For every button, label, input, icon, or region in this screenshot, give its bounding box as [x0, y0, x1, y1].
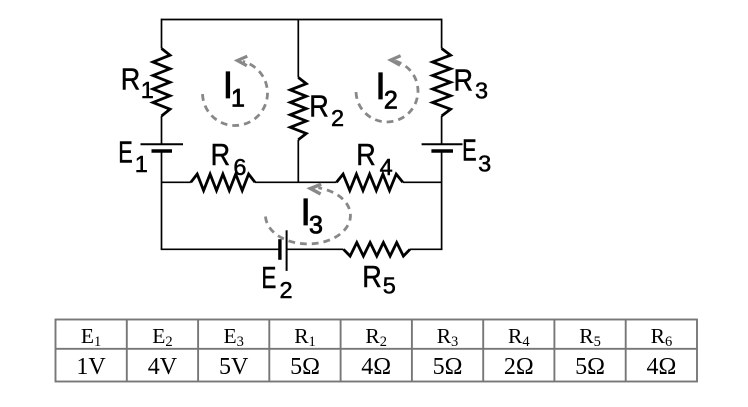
label E2 [261, 260, 292, 303]
svg-text:R: R [309, 89, 329, 124]
mesh current loop I2 dashed arc [356, 61, 418, 122]
table header row [81, 324, 672, 350]
svg-text:R2: R2 [365, 324, 387, 350]
wire right upper (top corner to R3) [441, 19, 443, 49]
svg-text:6: 6 [233, 154, 246, 180]
svg-text:4Ω: 4Ω [361, 354, 391, 380]
svg-text:E2: E2 [152, 324, 172, 350]
svg-text:4Ω: 4Ω [646, 354, 676, 380]
label I1 [223, 65, 245, 113]
label E1 [118, 134, 148, 177]
svg-text:E: E [118, 134, 133, 169]
mesh current loop I1 arrowhead [237, 56, 247, 65]
battery E3 (short thick plate) [431, 149, 453, 152]
wire left lower (E1 to bottom corner) [161, 151, 163, 249]
svg-text:E3: E3 [224, 324, 244, 350]
label R4 [356, 137, 392, 180]
table value row [76, 354, 676, 380]
svg-text:3: 3 [309, 212, 323, 240]
resistor R5 [344, 243, 411, 257]
svg-text:R6: R6 [651, 324, 673, 350]
label I2 [375, 66, 398, 114]
svg-text:R4: R4 [508, 324, 530, 350]
wire bottom left (corner to E2) [161, 248, 280, 250]
label R1 [121, 62, 154, 104]
wire bottom right (R5 to corner) [410, 248, 443, 250]
mesh current loop I3 arrowhead [311, 184, 322, 194]
wire middle branch upper (top to R2) [297, 20, 299, 78]
mesh current loop I3 dashed arc [266, 188, 351, 244]
battery E1 (short thick plate) [152, 149, 173, 152]
wire top [162, 19, 442, 21]
wire left between R1 and E1 [161, 116, 163, 144]
svg-text:5V: 5V [219, 354, 249, 380]
svg-text:1: 1 [231, 85, 245, 113]
table grid [56, 320, 698, 382]
svg-text:2: 2 [384, 86, 398, 114]
label R3 [454, 62, 489, 103]
resistor R3 [433, 49, 451, 117]
svg-text:R5: R5 [579, 324, 601, 350]
mesh current loop I1 dashed arc [203, 62, 268, 126]
svg-text:R: R [454, 62, 474, 97]
svg-text:E: E [261, 260, 276, 295]
wire middle horizontal center (R6 to R4 through node) [255, 181, 337, 183]
svg-text:R3: R3 [437, 324, 459, 350]
svg-text:5: 5 [383, 272, 396, 298]
svg-text:2: 2 [331, 105, 344, 131]
label E3 [462, 133, 491, 177]
wire bottom middle (E2 to R5) [287, 248, 344, 250]
svg-text:3: 3 [475, 77, 488, 103]
battery E3 (long plate) [422, 143, 463, 145]
svg-text:R: R [356, 137, 376, 172]
svg-text:3: 3 [478, 150, 491, 176]
wire middle branch lower (R2 to node) [297, 140, 299, 183]
svg-text:4: 4 [380, 154, 393, 180]
resistor R4 [337, 174, 403, 190]
svg-text:1V: 1V [76, 354, 106, 380]
svg-text:R: R [362, 259, 382, 294]
wire middle horizontal left (node A to R6) [162, 181, 191, 183]
svg-text:2: 2 [280, 277, 293, 303]
resistor R1 [153, 49, 170, 117]
wire middle horizontal right (R4 to right rail) [403, 181, 442, 183]
battery E1 (long plate) [141, 143, 184, 145]
resistor R6 [191, 174, 255, 190]
label R6 [211, 137, 247, 180]
label R2 [309, 89, 344, 132]
svg-text:2Ω: 2Ω [504, 354, 534, 380]
svg-text:R1: R1 [294, 324, 316, 350]
svg-text:1: 1 [135, 151, 148, 177]
wire left upper (top corner to R1) [161, 19, 163, 49]
mesh current loop I2 arrowhead [391, 56, 401, 65]
svg-text:R: R [121, 62, 141, 97]
wire right lower (E3 to bottom corner) [441, 151, 443, 249]
svg-text:1: 1 [141, 77, 154, 103]
svg-text:E1: E1 [81, 324, 101, 350]
svg-text:4V: 4V [148, 354, 178, 380]
svg-text:5Ω: 5Ω [575, 354, 605, 380]
label R5 [362, 259, 396, 298]
label I3 [300, 192, 323, 240]
battery E2 (short thick plate) [278, 239, 281, 260]
resistor R2 [290, 78, 306, 140]
battery E2 (long plate) [286, 230, 288, 271]
svg-text:5Ω: 5Ω [290, 354, 320, 380]
wire right between R3 and E3 [441, 116, 443, 144]
svg-text:E: E [462, 133, 477, 168]
svg-text:R: R [211, 137, 231, 172]
svg-text:5Ω: 5Ω [433, 354, 463, 380]
